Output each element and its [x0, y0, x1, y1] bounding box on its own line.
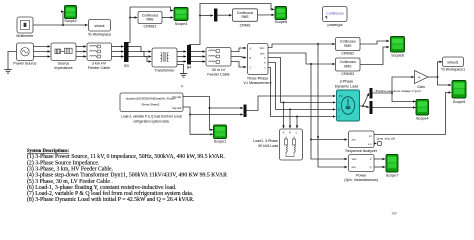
svg-text:Signal1: Signal1	[172, 95, 182, 99]
svg-text:A: A	[250, 46, 252, 50]
svg-text:Scope3: Scope3	[175, 22, 188, 26]
svg-text:B3: B3	[124, 64, 129, 68]
svg-text:3-Phase: 3-Phase	[340, 80, 354, 84]
svg-text:(6) Load-1, 3-phase floating Y: (6) Load-1, 3-phase floating Y, constant…	[27, 184, 177, 191]
svg-text:Load-2, variable P & Q load fe: Load-2, variable P & Q load fed from a r…	[121, 115, 182, 119]
svg-text:RMS: RMS	[146, 18, 153, 22]
svg-text:-K-: -K-	[418, 75, 422, 79]
svg-text:To Workspace1: To Workspace1	[441, 67, 465, 71]
svg-text:Continuous: Continuous	[326, 12, 343, 16]
svg-text:RMS: RMS	[344, 44, 351, 48]
svg-text:PQ: PQ	[339, 95, 343, 98]
svg-text:CRMS3: CRMS3	[341, 72, 354, 76]
svg-text:Gain: Gain	[417, 85, 425, 89]
svg-text:abc: abc	[352, 138, 357, 142]
svg-text:Scope6: Scope6	[391, 53, 404, 57]
svg-text:CRMS1: CRMS1	[144, 25, 157, 29]
svg-text:A: A	[283, 131, 285, 135]
svg-text:RMS: RMS	[344, 64, 351, 68]
svg-text:Transformer: Transformer	[155, 68, 176, 72]
svg-text:(5) 3 Phase, 30 m, LV Feeder C: (5) 3 Phase, 30 m, LV Feeder Cable .	[27, 178, 113, 185]
svg-text:Scope2: Scope2	[64, 19, 77, 23]
svg-text:Power Source: Power Source	[13, 62, 36, 66]
svg-text:RMS: RMS	[241, 15, 248, 19]
svg-text:50 kVA Load: 50 kVA Load	[258, 144, 278, 148]
svg-text:Vabc: Vabc	[352, 158, 358, 161]
svg-text:Q: Q	[369, 165, 371, 169]
svg-text:B: B	[289, 131, 291, 135]
svg-text:3 km HV: 3 km HV	[92, 62, 107, 66]
svg-text:Impedance: Impedance	[54, 66, 72, 70]
svg-text:Vabc: Vabc	[259, 48, 265, 50]
svg-text:(1) 3-Phase Power Source, 11 k: (1) 3-Phase Power Source, 11 kV, 0 imped…	[27, 153, 225, 160]
svg-text:180: 180	[391, 212, 397, 216]
svg-text:tingham20190306\AllData\A6_Pow: tingham20190306\AllData\A6_Power	[126, 97, 175, 101]
svg-text:<Positive-sequence voltage V (: <Positive-sequence voltage V (pu)>	[374, 89, 422, 93]
svg-text:C: C	[249, 65, 251, 69]
svg-text:30 m LV: 30 m LV	[212, 68, 226, 72]
svg-text:Signal2: Signal2	[172, 106, 182, 110]
svg-text:powergui: powergui	[328, 23, 343, 27]
svg-text:To Workspace: To Workspace	[88, 33, 111, 37]
svg-text:Feeder Cable: Feeder Cable	[207, 73, 229, 77]
svg-text:Three-Phase: Three-Phase	[247, 76, 268, 80]
svg-text:Multimeter: Multimeter	[16, 34, 34, 38]
svg-text:C: C	[296, 131, 298, 135]
svg-text:simout: simout	[95, 24, 105, 28]
svg-text:(4) 3-phase step-down Transfor: (4) 3-phase step-down Transformer Dyn11,…	[27, 172, 227, 179]
svg-text:V-I Measurement: V-I Measurement	[243, 81, 271, 85]
svg-text:∠u: ∠u	[368, 142, 372, 146]
svg-text:Power: Power	[356, 173, 367, 177]
svg-text:B4: B4	[187, 66, 192, 70]
svg-text:Sequence Analyzer: Sequence Analyzer	[345, 149, 378, 153]
svg-text:C: C	[338, 116, 340, 119]
svg-text:Scope4: Scope4	[416, 117, 429, 121]
svg-text:Scope7: Scope7	[386, 174, 399, 178]
svg-text:simout1: simout1	[447, 60, 458, 64]
svg-text:(8) 3-Phase Dynamic Load with: (8) 3-Phase Dynamic Load with initial P …	[27, 196, 195, 203]
svg-text:Scope8: Scope8	[275, 20, 288, 24]
svg-text:Dynamic Load: Dynamic Load	[335, 84, 359, 88]
svg-text:CRMS2: CRMS2	[341, 52, 354, 56]
svg-text:Scope1: Scope1	[214, 140, 227, 144]
svg-text:CRMS: CRMS	[240, 23, 251, 27]
svg-text:(3) 3-Phase, 3 km, HV Feeder C: (3) 3-Phase, 3 km, HV Feeder Cable.	[27, 166, 114, 173]
svg-text:Feeder Cable: Feeder Cable	[88, 66, 110, 70]
svg-text:P: P	[370, 157, 372, 161]
svg-text:Sheet:Sheet1: Sheet:Sheet1	[141, 102, 160, 106]
svg-text:|u|: |u|	[369, 134, 372, 138]
svg-text:refrigeration system data.: refrigeration system data.	[134, 120, 170, 124]
svg-text:Source: Source	[58, 62, 70, 66]
svg-text:Scope5: Scope5	[453, 100, 466, 104]
svg-text:(7) Load-2, variable P & Q loa: (7) Load-2, variable P & Q load fed from…	[27, 190, 194, 197]
svg-text:B: B	[250, 56, 252, 60]
svg-text:(2) 3-Phase Source Impedance.: (2) 3-Phase Source Impedance.	[27, 159, 100, 166]
svg-text:(3ph, Instantaneous): (3ph, Instantaneous)	[344, 178, 378, 182]
svg-text:1pos. seq. (A): 1pos. seq. (A)	[377, 136, 396, 140]
svg-text:Load1, 3-Phase: Load1, 3-Phase	[253, 139, 278, 143]
